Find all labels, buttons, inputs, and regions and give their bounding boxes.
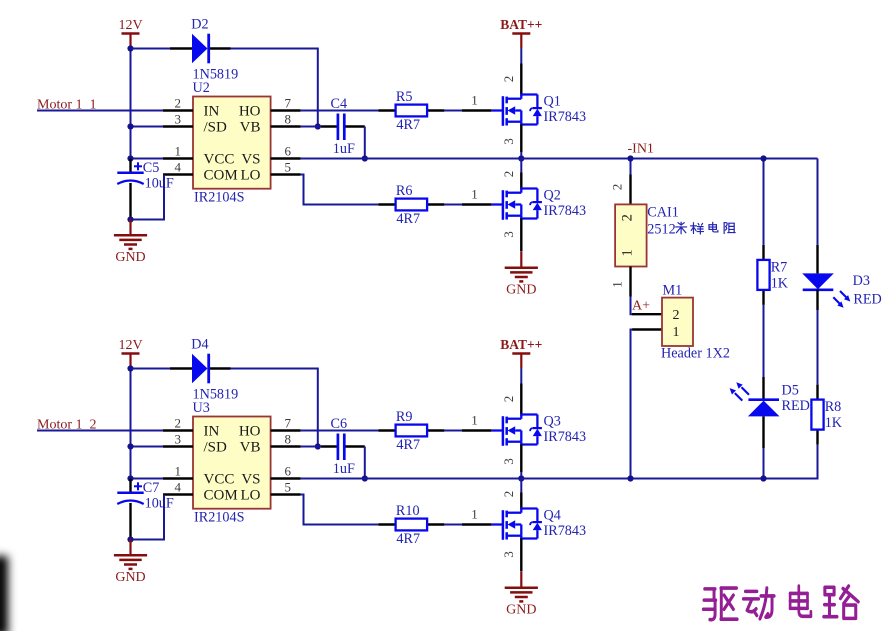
svg-text:GND: GND: [506, 602, 536, 617]
wire BAT to drain: [520, 48, 522, 64]
svg-text:IR7843: IR7843: [544, 109, 587, 125]
svg-text:D5: D5: [782, 382, 799, 398]
power 12V (bottom): [118, 338, 142, 369]
svg-text:RED: RED: [782, 398, 810, 414]
junction half-bridge mid: [518, 155, 524, 161]
svg-text:4R7: 4R7: [396, 437, 420, 453]
wire drain pin (black): [520, 384, 522, 415]
resistor R8 1K: [811, 385, 842, 445]
resistor R10 4R7: [378, 503, 444, 547]
wire drain pin (black): [520, 64, 522, 95]
capacitor C6 1uF: [321, 416, 365, 477]
svg-text:U2: U2: [193, 80, 210, 96]
svg-text:1: 1: [471, 93, 478, 108]
wire HO net: [301, 110, 379, 112]
svg-text:4R7: 4R7: [396, 531, 420, 547]
diode D2 1N5819: [170, 16, 238, 82]
wire R8 to -IN2 corner: [817, 445, 819, 480]
wire CAI1 to M1 pin2: [631, 297, 633, 315]
svg-text:D3: D3: [853, 273, 870, 289]
wire D5 to -IN2: [763, 448, 765, 479]
svg-text:D4: D4: [191, 336, 208, 352]
wire cap C6 to VS net: [364, 447, 366, 479]
svg-text:6: 6: [285, 143, 292, 158]
svg-text:VCC: VCC: [204, 472, 235, 488]
svg-text:1uF: 1uF: [333, 141, 355, 157]
svg-text:IR7843: IR7843: [544, 429, 587, 445]
ground GND (top left): [114, 219, 147, 264]
svg-text:1: 1: [471, 187, 478, 202]
svg-text:5: 5: [285, 479, 292, 494]
wire 12V rail vertical: [130, 369, 132, 479]
svg-text:C5: C5: [143, 160, 160, 176]
svg-text:3: 3: [501, 458, 516, 465]
transistor Q4 IR7843: [491, 508, 586, 540]
junction -IN2/M1: [627, 475, 633, 481]
svg-text:R5: R5: [396, 89, 413, 105]
svg-text:GND: GND: [506, 282, 536, 297]
junction VB node: [315, 443, 321, 449]
scan artifact bottom-left: [0, 556, 8, 631]
wire CAI1 top pin (black): [629, 175, 631, 205]
title block (CJK): [703, 586, 858, 620]
svg-text:1: 1: [471, 507, 478, 522]
svg-text:R10: R10: [396, 503, 420, 519]
wire mid to low-side drain: [520, 159, 522, 173]
wire R5 to gate: [444, 110, 462, 112]
wire R10 to gate: [444, 524, 462, 526]
svg-text:10uF: 10uF: [145, 176, 174, 192]
junction cap bottom/GND: [127, 536, 133, 542]
svg-text:M1: M1: [663, 282, 683, 298]
wire cap C4 to VS net: [364, 127, 366, 159]
wire diode cathode to VB node: [231, 48, 318, 50]
svg-text:R9: R9: [396, 409, 413, 425]
svg-text:1K: 1K: [771, 275, 789, 291]
wire D5 cathode pin (black): [762, 416, 764, 448]
svg-text:2: 2: [501, 491, 516, 498]
capacitor C7 10uF: [117, 479, 174, 540]
label 2512 sampling resistor (CJK): [647, 221, 735, 237]
wire COM to cap bottom: [131, 175, 165, 220]
svg-text:IR7843: IR7843: [544, 203, 587, 219]
wire gate pin (black): [462, 429, 491, 431]
svg-text:7: 7: [285, 95, 292, 110]
wire mid to low-side drain: [520, 479, 522, 493]
svg-text:1: 1: [175, 463, 182, 478]
wire 12V to /SD pin: [131, 446, 164, 448]
wire VB pin to node: [301, 126, 318, 128]
svg-text:1: 1: [673, 325, 680, 340]
svg-text:5: 5: [285, 159, 292, 174]
svg-text:IN: IN: [204, 424, 220, 440]
svg-text:1: 1: [610, 281, 625, 288]
wire 12V to VCC pin: [131, 478, 164, 480]
wire CAI1 bottom pin (black): [629, 267, 631, 297]
junction -IN2/D5: [760, 475, 766, 481]
wire 12V to diode D4: [131, 368, 171, 370]
svg-text:VB: VB: [240, 120, 261, 136]
svg-text:R6: R6: [396, 183, 413, 199]
wire M1 pin2 (black): [632, 313, 662, 315]
resistor R9 4R7: [378, 409, 444, 453]
svg-text:COM: COM: [204, 168, 238, 184]
resistor R7 1K: [757, 245, 788, 305]
svg-text:4: 4: [175, 159, 182, 174]
wire R6 to gate: [444, 204, 462, 206]
svg-text:VS: VS: [241, 472, 260, 488]
ground GND (top bridge): [505, 252, 538, 297]
svg-text:D2: D2: [191, 16, 208, 32]
LED D3 RED: [802, 273, 882, 308]
svg-text:2: 2: [175, 95, 182, 110]
svg-text:IN: IN: [204, 104, 220, 120]
junction -IN1/CAI1: [627, 155, 633, 161]
svg-text:4R7: 4R7: [396, 117, 420, 133]
svg-text:C7: C7: [143, 480, 160, 496]
junction VS net: [362, 475, 368, 481]
wire 12V to /SD pin: [131, 126, 164, 128]
wire -IN1 corner to D3: [817, 159, 819, 245]
wire source pin to GND (black): [520, 539, 522, 572]
svg-text:2: 2: [673, 308, 680, 323]
svg-text:1: 1: [175, 143, 182, 158]
wire node to cap C6: [318, 446, 328, 448]
capacitor C4 1uF: [321, 96, 365, 157]
connector M1 Header 1X2: [661, 282, 730, 361]
LED D5 RED: [730, 382, 810, 416]
svg-text:8: 8: [285, 431, 292, 446]
wire BAT to drain: [520, 368, 522, 384]
wire VB pin to node: [301, 446, 318, 448]
wire LO net: [301, 495, 379, 525]
junction /SD: [127, 123, 133, 129]
svg-text:IR2104S: IR2104S: [194, 189, 245, 205]
svg-text:7: 7: [285, 415, 292, 430]
wire source to mid node: [520, 472, 522, 479]
junction -IN1/R7: [760, 155, 766, 161]
svg-text:/SD: /SD: [204, 120, 228, 136]
wire HO net: [301, 430, 379, 432]
power BAT++ (top): [500, 17, 542, 48]
svg-text:1uF: 1uF: [333, 461, 355, 477]
wire M1 pin1 (black): [632, 328, 662, 330]
wire 12V to diode D2: [131, 48, 171, 50]
svg-text:VS: VS: [241, 152, 260, 168]
wire D3 cathode to R8: [816, 290, 818, 310]
wire node to cap C4: [318, 126, 328, 128]
transistor Q2 IR7843: [491, 188, 586, 220]
junction VB node: [315, 123, 321, 129]
junction half-bridge mid: [518, 475, 524, 481]
wire Motor 1_2 to IN pin: [37, 430, 163, 432]
wire diode cathode to VB node: [231, 368, 318, 370]
junction cap bottom/GND: [127, 216, 133, 222]
wire CAI1 top: [630, 159, 632, 175]
svg-text:VB: VB: [240, 440, 261, 456]
svg-text:COM: COM: [204, 488, 238, 504]
svg-text:2: 2: [610, 184, 625, 191]
svg-text:3: 3: [501, 231, 516, 238]
wire source pin (black): [520, 125, 522, 153]
resistor CAI1 2512 sampling: [615, 204, 679, 266]
svg-text:BAT++: BAT++: [500, 337, 542, 352]
capacitor C5 10uF: [117, 159, 174, 220]
wire LO net: [301, 175, 379, 205]
wire drain pin (black): [520, 493, 522, 509]
power BAT++ (bottom): [500, 337, 542, 368]
svg-text:3: 3: [175, 111, 182, 126]
svg-text:4R7: 4R7: [396, 211, 420, 227]
wire M1 pin1 to -IN2: [631, 330, 633, 479]
transistor Q3 IR7843: [491, 414, 586, 446]
resistor R5 4R7: [378, 89, 444, 133]
svg-text:Q2: Q2: [544, 188, 561, 204]
junction VCC: [127, 155, 133, 161]
junction 12V/D anode: [127, 365, 133, 371]
svg-text:IR2104S: IR2104S: [194, 509, 245, 525]
wire gate pin (black): [462, 109, 491, 111]
svg-text:2512: 2512: [647, 221, 675, 237]
junction /SD: [127, 443, 133, 449]
svg-text:4: 4: [175, 479, 182, 494]
svg-text:LO: LO: [241, 168, 261, 184]
svg-text:3: 3: [501, 551, 516, 558]
svg-text:3: 3: [501, 138, 516, 145]
wire -IN2 bus: [301, 478, 818, 480]
svg-text:Header 1X2: Header 1X2: [661, 346, 730, 362]
svg-text:IR7843: IR7843: [544, 523, 587, 539]
wire 12V rail vertical: [130, 49, 132, 159]
wire -IN1 bus: [301, 158, 818, 160]
resistor R6 4R7: [378, 183, 444, 227]
wire gate pin (black): [462, 523, 491, 525]
svg-text:U3: U3: [193, 400, 210, 416]
ground GND (bottom bridge): [505, 572, 538, 618]
svg-text:8: 8: [285, 111, 292, 126]
svg-text:A+: A+: [632, 299, 650, 314]
wire source to mid node: [520, 152, 522, 159]
svg-text:12V: 12V: [118, 338, 142, 353]
svg-text:2: 2: [501, 396, 516, 403]
svg-text:VCC: VCC: [204, 152, 235, 168]
svg-text:R8: R8: [825, 399, 842, 415]
wire D3 anode pin (black): [816, 245, 818, 274]
svg-text:1: 1: [620, 249, 636, 256]
op-amp driver UU2 IR2104S: [163, 80, 301, 206]
svg-text:1K: 1K: [825, 415, 843, 431]
power 12V (top): [118, 18, 142, 49]
wire R9 to gate: [444, 430, 462, 432]
transistor Q1 IR7843: [491, 94, 586, 126]
wire source pin to GND (black): [520, 219, 522, 252]
svg-text:GND: GND: [115, 250, 145, 265]
junction VCC: [127, 475, 133, 481]
diode D4 1N5819: [170, 336, 238, 402]
op-amp driver UU3 IR2104S: [163, 400, 301, 526]
svg-text:12V: 12V: [118, 18, 142, 33]
wire Motor 1_1 to IN pin: [37, 110, 163, 112]
svg-text:GND: GND: [115, 570, 145, 585]
svg-text:3: 3: [175, 431, 182, 446]
junction 12V/D anode: [127, 45, 133, 51]
svg-text:Q3: Q3: [544, 414, 561, 430]
svg-text:2: 2: [620, 214, 636, 221]
wire D5 anode pin (black): [762, 377, 764, 400]
svg-text:LO: LO: [241, 488, 261, 504]
wire 12V to VCC pin: [131, 158, 164, 160]
wire R7 to D5: [763, 305, 765, 377]
svg-text:-IN1: -IN1: [628, 142, 654, 157]
svg-text:10uF: 10uF: [145, 496, 174, 512]
svg-text:2: 2: [175, 415, 182, 430]
wire gate pin (black): [462, 203, 491, 205]
ground GND (bottom left): [114, 539, 147, 585]
svg-text:BAT++: BAT++: [500, 17, 542, 32]
svg-text:/SD: /SD: [204, 440, 228, 456]
wire COM to cap bottom: [131, 495, 165, 540]
svg-text:CAI1: CAI1: [647, 204, 679, 220]
wire source pin (black): [520, 445, 522, 473]
svg-text:HO: HO: [239, 104, 261, 120]
svg-text:2: 2: [501, 76, 516, 83]
svg-text:Q4: Q4: [544, 508, 561, 524]
svg-text:2: 2: [501, 171, 516, 178]
junction VS net: [362, 155, 368, 161]
svg-text:6: 6: [285, 463, 292, 478]
wire drain pin (black): [520, 173, 522, 189]
svg-text:R7: R7: [771, 259, 788, 275]
wire R7 top: [763, 159, 765, 245]
svg-text:1: 1: [471, 413, 478, 428]
svg-text:Q1: Q1: [544, 94, 561, 110]
svg-text:HO: HO: [239, 424, 261, 440]
svg-text:RED: RED: [853, 292, 881, 308]
